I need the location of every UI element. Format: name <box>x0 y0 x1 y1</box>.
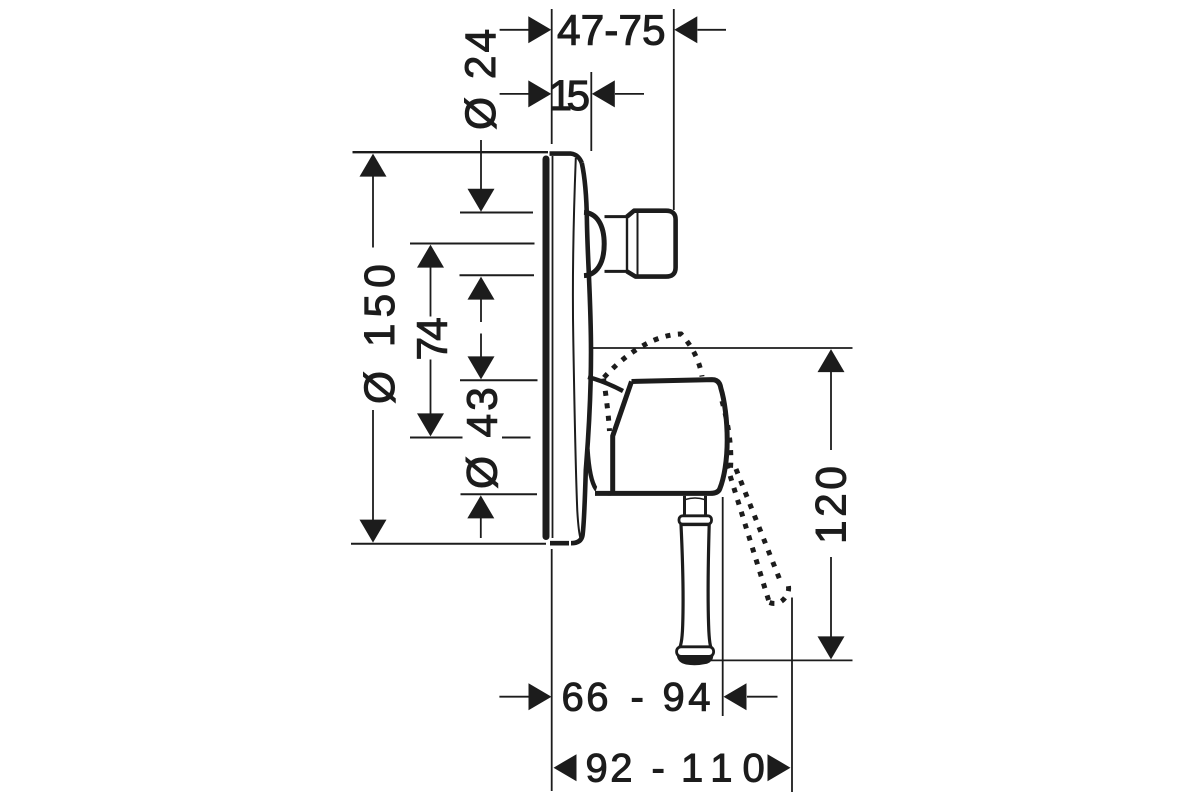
svg-text:110: 110 <box>681 747 775 791</box>
wire: wall plane extension line (vertical, full height) <box>551 9 553 144</box>
escutcheon plate top edge <box>550 154 582 163</box>
svg-text:-: - <box>631 676 644 720</box>
svg-text:15: 15 <box>549 73 591 120</box>
wire: top reference line (plate top) <box>353 151 549 153</box>
svg-text:Ø: Ø <box>460 456 507 489</box>
dashed along body right edge <box>722 401 731 468</box>
wire: 47-75 right extension line <box>673 9 675 210</box>
handle bottom ring <box>677 647 714 657</box>
dimension 74 arrows <box>430 267 432 415</box>
spout end connector <box>627 211 676 277</box>
handle collar ring <box>679 516 712 524</box>
wire: 15 right extension line <box>590 72 592 151</box>
dimension 15 left arrow <box>500 93 529 95</box>
valve body bottom shoulder curve <box>588 449 612 493</box>
dimension 66-94 left arrow <box>499 696 529 698</box>
wire: 120 top reference line <box>592 347 853 349</box>
wire: 43 top tick line <box>460 274 535 276</box>
wire: small diameter tick line <box>461 493 538 495</box>
svg-text:Ø 24: Ø 24 <box>458 26 505 130</box>
dashed handle left edge <box>727 464 770 602</box>
wire: 74 bottom tick line (broken by 43 text) <box>410 437 531 439</box>
dashed handle right edge <box>736 469 782 584</box>
dimension small-diameter arrow (up) <box>480 517 482 538</box>
dimension 92-110 arrows <box>554 754 577 781</box>
dimension diameter-24 arrow (down) <box>480 140 482 191</box>
handle shaft <box>680 525 711 648</box>
escutcheon plate face line <box>573 158 581 540</box>
handle neck <box>685 496 706 516</box>
dimension 66-94 right arrow <box>747 696 778 698</box>
valve body outline <box>595 380 727 494</box>
wire: 92-110 right extension line <box>791 598 793 793</box>
dimension 120 vertical with arrows <box>830 372 832 639</box>
dashed swing arc over body <box>604 334 789 603</box>
svg-text:74: 74 <box>410 318 457 361</box>
svg-text:Ø 150: Ø 150 <box>357 258 404 404</box>
spout middle cylinder <box>605 217 628 272</box>
dashed handle tip <box>770 584 789 603</box>
escutcheon plate left edge (wall rim) <box>543 159 550 537</box>
dimension 43 arrows <box>480 299 482 358</box>
dimension 15 right arrow <box>615 93 644 95</box>
wire: diameter 24 tick line <box>460 212 533 214</box>
wire: 43 bottom tick line <box>460 379 538 381</box>
svg-text:-: - <box>652 747 665 791</box>
wire: 66-94 right extension line <box>722 497 724 716</box>
wire: 74 top tick line <box>410 243 535 245</box>
dimension 47-75 right arrow <box>698 29 727 31</box>
svg-text:92: 92 <box>586 747 636 791</box>
escutcheon plate right contour <box>571 163 591 543</box>
svg-text:94: 94 <box>663 676 715 720</box>
svg-text:120: 120 <box>809 463 856 544</box>
svg-text:66: 66 <box>562 676 612 720</box>
wire: bottom reference line (plate bottom) <box>351 543 546 545</box>
dashed left droop <box>604 379 610 432</box>
handle bottom cap (dark) <box>677 656 714 666</box>
escutcheon plate bottom edge <box>550 541 569 546</box>
valve body left edge <box>613 382 632 492</box>
spout D-bulge on plate <box>584 212 604 275</box>
wire: bottom baseline under handle <box>707 659 853 661</box>
svg-text:47-75: 47-75 <box>557 8 666 55</box>
dimension 47-75 left arrow <box>500 29 529 31</box>
svg-text:43: 43 <box>460 384 507 437</box>
valve body top shoulder curve <box>588 377 623 391</box>
dimension diameter-150 vertical line with arrows <box>372 176 374 523</box>
